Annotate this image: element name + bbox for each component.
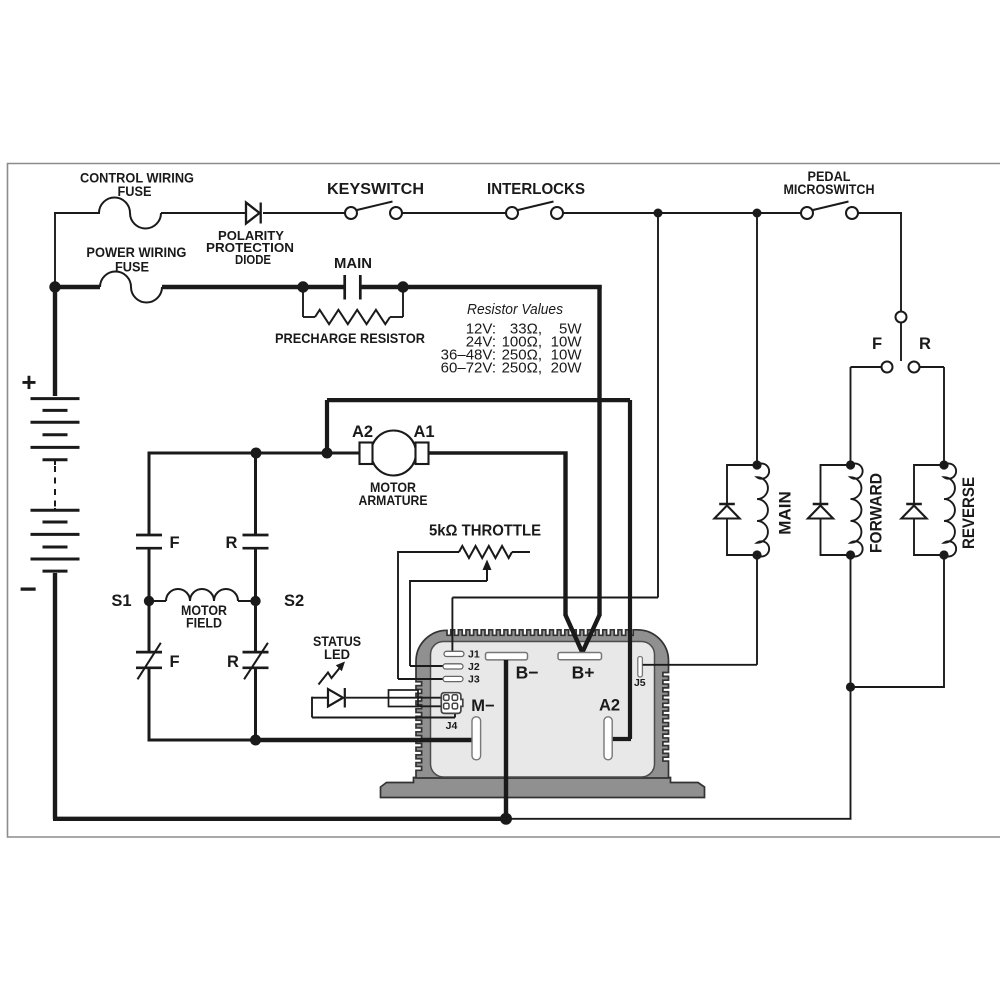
terminal J2 <box>443 664 463 669</box>
svg-text:J5: J5 <box>634 677 646 689</box>
node J1-feed junction <box>654 209 663 218</box>
wire forward coil return <box>850 555 852 688</box>
node armature loop junction <box>322 448 333 459</box>
status LED arrow <box>319 668 341 685</box>
power wiring fuse F2 <box>100 272 162 303</box>
svg-text:J2: J2 <box>468 661 480 673</box>
wire pot end to J3 <box>397 551 399 679</box>
svg-text:FUSE: FUSE <box>115 259 149 275</box>
controller heatsink body <box>381 778 705 798</box>
terminal B- <box>486 653 528 660</box>
status LED D2 <box>328 689 343 707</box>
node B- junction <box>500 813 512 825</box>
wire interlocks to pedal microswitch <box>563 212 801 214</box>
pedal microswitch S3 <box>801 207 813 219</box>
svg-text:Resistor Values: Resistor Values <box>467 301 563 318</box>
svg-text:A2: A2 <box>599 697 620 715</box>
svg-text:F: F <box>169 653 179 671</box>
reverse coil suppression diode <box>914 464 944 466</box>
wire B- to battery negative bus <box>504 660 508 819</box>
svg-text:PRECHARGE RESISTOR: PRECHARGE RESISTOR <box>275 330 425 346</box>
wire armature loop to controller A2 <box>325 400 329 453</box>
wire battery negative bus <box>53 817 506 821</box>
svg-text:M−: M− <box>471 697 494 715</box>
wire field left branch S1 <box>148 453 151 535</box>
node precharge left junction <box>297 281 308 292</box>
svg-text:S1: S1 <box>111 592 131 610</box>
control wiring fuse F1 <box>99 197 161 228</box>
wire fuse to main contact <box>162 285 344 289</box>
wire field bus to armature A2 brush <box>148 452 361 455</box>
contact R crossed lower <box>243 651 269 654</box>
wire keyswitch to interlocks <box>402 212 506 214</box>
wire LED cathode to J4 <box>346 697 442 699</box>
node coil return junction <box>846 682 855 691</box>
wire F contact to forward coil <box>851 366 882 368</box>
polarity protection diode D1 <box>246 203 260 224</box>
svg-text:REVERSE: REVERSE <box>959 477 978 549</box>
svg-text:S2: S2 <box>284 592 304 610</box>
node precharge right junction <box>397 281 408 292</box>
svg-text:5kΩ THROTTLE: 5kΩ THROTTLE <box>429 523 541 540</box>
terminal J5 <box>638 657 643 678</box>
svg-text:B+: B+ <box>572 663 595 683</box>
node battery+ junction <box>49 281 60 292</box>
svg-text:20W: 20W <box>551 359 583 376</box>
node S2 <box>250 596 260 606</box>
svg-text:J3: J3 <box>468 674 480 686</box>
wire B+ feed from power line <box>597 285 601 616</box>
svg-text:J1: J1 <box>468 649 480 661</box>
svg-text:MICROSWITCH: MICROSWITCH <box>784 182 875 197</box>
terminal B+ <box>558 653 602 660</box>
contact R reverse upper <box>243 534 269 537</box>
node S1 <box>144 596 154 606</box>
terminal A2 <box>604 717 612 760</box>
svg-text:LED: LED <box>324 646 350 662</box>
svg-text:F: F <box>872 335 882 353</box>
interlocks switch S2 <box>506 207 518 219</box>
terminal M- <box>472 717 481 760</box>
terminal J1 <box>444 651 464 656</box>
svg-text:60–72V:: 60–72V: <box>441 359 496 376</box>
motor armature M1 <box>371 431 416 476</box>
svg-text:R: R <box>226 534 238 552</box>
wire R contact to reverse coil <box>920 366 945 368</box>
wire coil return bus <box>506 818 852 820</box>
main coil suppression diode <box>727 464 757 466</box>
wire reverse coil return <box>943 555 945 688</box>
wire A1 to B+ <box>428 451 568 455</box>
node field bottom junction <box>250 735 261 746</box>
precharge resistor R1 <box>302 287 304 317</box>
wire keyswitch bus to MAIN coil <box>756 213 758 465</box>
main contactor coil <box>752 460 761 469</box>
svg-text:+: + <box>21 367 36 397</box>
LED wire terminal block <box>389 690 419 707</box>
wire power line battery+ <box>53 285 100 289</box>
throttle potentiometer 5k <box>398 551 459 553</box>
wire main contact to B+ drop <box>361 285 602 289</box>
keyswitch S1 <box>345 207 357 219</box>
contact F reverse-crossed lower <box>136 651 162 654</box>
main contactor tip MAIN <box>343 275 346 300</box>
svg-text:ARMATURE: ARMATURE <box>359 492 428 508</box>
wire LED anode loop to J4 <box>312 697 328 699</box>
wire field right branch S2 <box>254 453 257 535</box>
battery BT1 <box>31 287 80 819</box>
svg-text:FUSE: FUSE <box>118 183 152 199</box>
svg-text:FIELD: FIELD <box>186 616 222 631</box>
svg-text:A1: A1 <box>413 423 434 441</box>
motor field coil L1 <box>149 600 166 602</box>
svg-text:F: F <box>169 534 179 552</box>
wire diode to keyswitch <box>263 212 345 214</box>
terminal J3 <box>443 676 463 681</box>
reverse contactor coil <box>939 460 948 469</box>
svg-text:J4: J4 <box>446 720 458 732</box>
svg-text:MAIN: MAIN <box>776 491 795 534</box>
F/R selector switch <box>896 312 907 323</box>
wire field bottom bus to M- <box>148 739 256 742</box>
svg-text:FORWARD: FORWARD <box>867 473 886 553</box>
svg-text:MAIN: MAIN <box>334 255 372 272</box>
wire fuse to diode <box>161 212 246 214</box>
node main-coil junction <box>753 209 762 218</box>
throttle wiper arrow <box>486 567 488 581</box>
forward coil suppression diode <box>821 464 851 466</box>
wire pedal microswitch to F/R selector <box>858 212 902 214</box>
svg-text:R: R <box>919 335 931 353</box>
svg-text:B−: B− <box>516 663 539 683</box>
svg-text:KEYSWITCH: KEYSWITCH <box>327 181 424 198</box>
svg-text:DIODE: DIODE <box>235 252 271 267</box>
svg-text:250Ω,: 250Ω, <box>502 359 542 376</box>
contact F forward upper <box>136 534 162 537</box>
forward contactor coil <box>846 460 855 469</box>
wire wiper to J2 <box>410 580 487 582</box>
wire control line from battery+ node <box>54 212 56 287</box>
svg-text:−: − <box>19 573 37 606</box>
wire interlock node to J1 <box>657 213 659 598</box>
svg-text:INTERLOCKS: INTERLOCKS <box>487 181 585 198</box>
svg-text:A2: A2 <box>352 423 373 441</box>
svg-text:R: R <box>227 653 239 671</box>
wire J5 to main contactor coil <box>643 664 757 666</box>
node S2 branch top junction <box>251 448 262 459</box>
connector J4 <box>441 693 463 714</box>
